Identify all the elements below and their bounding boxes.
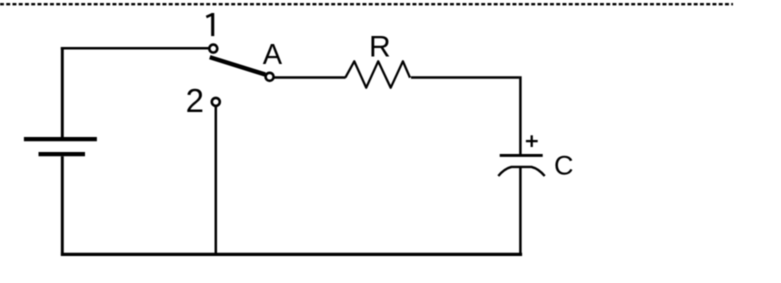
- svg-text:A: A: [263, 39, 283, 71]
- wire top-left horizontal (battery top to switch pole 1): [61, 47, 209, 50]
- capacitor C curved bottom plate: [498, 167, 544, 176]
- wire left vertical lower (battery - plate to bottom rail): [61, 156, 64, 256]
- switch contact circle 1: [209, 45, 217, 53]
- resistor R: [345, 61, 410, 87]
- dashed separator line: [0, 3, 733, 5]
- svg-text:R: R: [369, 30, 391, 63]
- wire from switch pole A to resistor: [274, 76, 345, 79]
- battery B1 negative plate: [39, 152, 86, 156]
- capacitor C plus sign: [526, 140, 538, 142]
- capacitor C top plate: [500, 154, 543, 157]
- wire from switch throw 2 down to bottom rail: [215, 106, 218, 253]
- battery B1 positive plate: [24, 137, 97, 141]
- wire bottom rail: [61, 253, 522, 256]
- wire left vertical upper (to battery + plate): [61, 47, 64, 137]
- svg-text:C: C: [554, 151, 574, 181]
- label 1: [206, 13, 212, 36]
- switch contact circle 2: [212, 98, 220, 106]
- svg-text:2: 2: [186, 82, 204, 119]
- wire right vertical lower (capacitor to bottom rail): [519, 166, 522, 253]
- wire resistor to top-right corner and down to capacitor: [411, 76, 519, 79]
- switch blade (pole 1 to A, closed to position 1): [210, 57, 265, 74]
- switch contact circle A: [266, 73, 274, 81]
- wire right vertical upper (corner to capacitor top plate): [519, 76, 522, 154]
